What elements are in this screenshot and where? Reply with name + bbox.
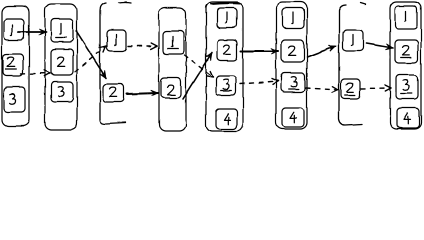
arrow L2.1 to L3.2 (solid) bbox=[76, 31, 106, 78]
arrow L2.2 to L3.1 (dashed) bbox=[75, 46, 106, 72]
L4 item 1 label 1 bbox=[172, 36, 173, 47]
list L6 outer bbox=[276, 2, 307, 129]
L8 item 2 box bbox=[395, 40, 418, 63]
arrow L3.2 to L4.2 (solid) bbox=[127, 93, 158, 94]
L6 item 4 label 4 bbox=[290, 112, 296, 123]
L5 item 1 label 1 bbox=[226, 12, 227, 23]
L6 item 2 box bbox=[281, 40, 304, 62]
L6 item 1 box bbox=[282, 8, 304, 28]
L1 item 2 label 2 bbox=[8, 57, 15, 66]
L5 item 3 label 3 bbox=[223, 79, 229, 89]
L2 item 2 label 2 bbox=[58, 57, 65, 66]
L3 item 2 label 2 bbox=[110, 87, 117, 96]
L2 item 1 box bbox=[51, 19, 73, 42]
L4 item 2 label 2 bbox=[168, 86, 175, 95]
L6 item 4 box bbox=[282, 108, 304, 127]
list L5 outer bbox=[206, 2, 243, 131]
list L4 outer bbox=[159, 8, 186, 131]
list L1 outer bbox=[2, 6, 29, 126]
list L2 outer bbox=[45, 4, 77, 130]
L5 item 2 label 2 bbox=[224, 45, 231, 54]
L3 item 1 box bbox=[107, 30, 126, 51]
L1 item 3 box bbox=[4, 87, 25, 112]
arrow L5.2 to L6.2 (solid) bbox=[241, 50, 278, 52]
L7 item 1 label 1 bbox=[352, 34, 353, 45]
arrow L6.3 to L7.2 (dashed) bbox=[306, 88, 338, 90]
L8 item 2 label 2 bbox=[403, 46, 410, 55]
arrow L5.3 to L6.3 (dashed) bbox=[240, 81, 278, 84]
L4 item 1 box bbox=[163, 31, 184, 54]
L7 item 2 label 2 bbox=[347, 83, 354, 92]
L1 item 1 box bbox=[4, 19, 24, 40]
L5 item 4 label 4 bbox=[224, 114, 230, 125]
list L7 outer bbox=[339, 3, 366, 125]
L5 item 1 box bbox=[217, 8, 237, 28]
L8 item 1 label 1 bbox=[405, 11, 406, 22]
L6 item 2 label 2 bbox=[289, 46, 296, 55]
arrow L6.2 to L7.1 (solid) bbox=[307, 46, 336, 57]
L8 item 3 label 3 bbox=[403, 80, 409, 90]
L6 item 3 box bbox=[281, 73, 305, 92]
L8 item 1 box bbox=[395, 6, 417, 29]
arrow L1.2 to L2.2 (dashed) bbox=[21, 73, 50, 74]
L6 item 1 label 1 bbox=[292, 12, 293, 23]
L2 item 3 label 3 bbox=[58, 87, 64, 97]
L5 item 4 box bbox=[216, 109, 237, 129]
list L8 outer bbox=[390, 2, 421, 129]
L1 item 2 box bbox=[3, 54, 23, 76]
L6 item 3 label 3 bbox=[291, 77, 297, 87]
L2 item 2 box bbox=[51, 49, 73, 75]
L7 item 2 box bbox=[341, 79, 360, 99]
L3 item 2 box bbox=[103, 84, 124, 102]
L4 item 2 box bbox=[161, 78, 181, 98]
arrow L7.1 to L8.2 (solid) bbox=[366, 44, 393, 49]
L5 item 2 box bbox=[217, 40, 237, 61]
arrow L4.1 to L5.3 (dashed) bbox=[184, 55, 213, 77]
L2 item 1 label 1 bbox=[60, 23, 61, 34]
arrow L7.2 to L8.3 (dashed) bbox=[361, 87, 391, 90]
L8 item 4 box bbox=[397, 108, 419, 128]
arrow L1.1 to L2.1 (solid) bbox=[18, 31, 46, 33]
L8 item 4 label 4 bbox=[404, 113, 410, 124]
L2 item 3 box bbox=[51, 82, 73, 102]
list L3 outer bbox=[100, 3, 131, 125]
L5 item 3 box bbox=[216, 76, 236, 95]
L8 item 3 box bbox=[396, 75, 418, 99]
arrow L4.2 to L5.2 (solid) bbox=[183, 53, 212, 99]
L3 item 1 label 1 bbox=[115, 34, 116, 45]
L7 item 1 box bbox=[343, 30, 363, 51]
L1 item 1 label 1 bbox=[11, 25, 12, 36]
L1 item 3 label 3 bbox=[10, 94, 16, 104]
arrow L3.1 to L4.1 (dashed) bbox=[128, 45, 157, 47]
